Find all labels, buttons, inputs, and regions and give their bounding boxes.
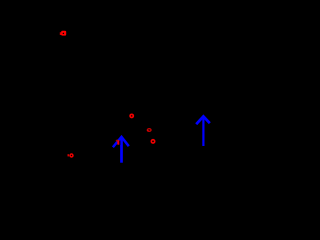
- atom O5 (bottom-left red oxygen with bond stub): [68, 154, 73, 157]
- arrow A2 (blue up-arrow, right side): [196, 116, 210, 146]
- atom O2 (red oxygen, carbonyl top): [130, 114, 133, 117]
- node gap (dark hole of O6 glyph over arrow A1 barb): [119, 141, 120, 145]
- arrow A1 (blue up-arrow, lower middle): [113, 137, 129, 163]
- atom O1 (top-left red oxygen with bond stub): [60, 31, 66, 36]
- atom O4 (red oxygen, lower ester): [151, 140, 154, 143]
- atom O6 (red oxygen glyph drawn over arrow A1 head): [116, 140, 119, 145]
- atom O3 (red oxygen, ester middle): [147, 129, 151, 132]
